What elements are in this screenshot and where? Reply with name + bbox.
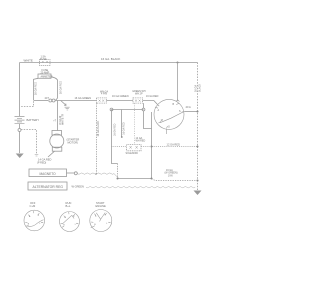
svg-text:S: S bbox=[38, 215, 40, 217]
connector 24T bbox=[49, 99, 52, 102]
wire alternator wavy ground bbox=[86, 187, 195, 188]
wire magneto lead bbox=[67, 172, 75, 174]
svg-text:WHITE: WHITE bbox=[24, 59, 33, 63]
svg-text:B+L: B+L bbox=[66, 204, 71, 208]
wire tee to connector bbox=[34, 100, 49, 102]
wire kill line to rail bbox=[118, 178, 152, 180]
wire key switch top feed bbox=[177, 63, 179, 102]
svg-text:S: S bbox=[105, 215, 107, 217]
ground arrow near starter bbox=[61, 101, 66, 106]
svg-text:(P RED): (P RED) bbox=[37, 162, 46, 165]
fuse F1 on top wire bbox=[40, 60, 51, 66]
wire lower interlock bbox=[112, 109, 144, 111]
alternator reg box bbox=[28, 182, 67, 190]
svg-text:B: B bbox=[28, 224, 30, 226]
svg-text:16 GA RED: 16 GA RED bbox=[146, 95, 159, 98]
svg-text:A: A bbox=[158, 109, 160, 112]
key switch U1 bbox=[154, 99, 184, 129]
svg-text:SOLENOID: SOLENOID bbox=[126, 152, 139, 155]
svg-text:S: S bbox=[73, 216, 75, 218]
svg-text:L: L bbox=[75, 224, 77, 226]
wire drop x121 bbox=[121, 110, 123, 138]
svg-text:B: B bbox=[63, 225, 65, 227]
key switch bottom stub bbox=[166, 130, 168, 135]
connector box B bbox=[133, 98, 143, 103]
wire link box B to circle bbox=[143, 103, 145, 108]
key switch wiper bbox=[160, 112, 184, 123]
ground right rail bbox=[194, 191, 202, 196]
switch position OFF circle bbox=[24, 210, 45, 231]
wire between connectors bbox=[106, 100, 133, 102]
svg-text:12 GA RED: 12 GA RED bbox=[167, 143, 181, 147]
wire solenoid line left bbox=[112, 146, 127, 148]
svg-text:40 A: 40 A bbox=[186, 105, 191, 109]
svg-text:FUSE: FUSE bbox=[40, 58, 47, 61]
battery B1 bbox=[15, 117, 25, 124]
svg-text:ENGINE: ENGINE bbox=[96, 204, 107, 208]
svg-text:BATTERY: BATTERY bbox=[27, 118, 40, 122]
wire to key switch bbox=[143, 101, 158, 105]
svg-text:16 GA: 16 GA bbox=[195, 85, 198, 92]
node junction top wire x178 bbox=[177, 62, 179, 64]
wire magneto wavy bbox=[78, 173, 119, 178]
svg-text:JXN: JXN bbox=[168, 174, 173, 177]
svg-text:L: L bbox=[40, 223, 42, 225]
svg-text:B: B bbox=[94, 224, 96, 226]
wire drop box B faint bbox=[134, 103, 136, 144]
svg-text:MOTOR): MOTOR) bbox=[68, 140, 79, 144]
solenoid connector box bbox=[127, 145, 142, 151]
wire key switch bottom path bbox=[144, 111, 152, 129]
svg-text:WH RED: WH RED bbox=[136, 140, 146, 143]
wire interlock drop x112 bbox=[112, 110, 118, 164]
svg-text:16 GA GREEN: 16 GA GREEN bbox=[112, 95, 129, 98]
switch position START circle bbox=[90, 210, 112, 232]
svg-text:16 GA RED: 16 GA RED bbox=[35, 82, 38, 95]
svg-text:C+M: C+M bbox=[30, 204, 37, 208]
svg-text:WHITE TR: WHITE TR bbox=[63, 114, 65, 125]
svg-text:20 AMP: 20 AMP bbox=[41, 72, 50, 75]
wire right rail bbox=[197, 63, 199, 191]
svg-text:16 GA RED: 16 GA RED bbox=[113, 123, 116, 136]
wire left drop from ammeter bbox=[34, 78, 39, 98]
ground battery bbox=[16, 154, 24, 159]
svg-text:ALTERNATOR REG: ALTERNATOR REG bbox=[33, 185, 64, 189]
svg-text:S: S bbox=[179, 110, 181, 113]
connector on battery lead bbox=[18, 129, 21, 132]
svg-text:A: A bbox=[65, 216, 67, 219]
svg-text:+T: +T bbox=[53, 120, 56, 123]
wire solenoid to rail bbox=[141, 146, 198, 148]
svg-text:16 GA. BLACK: 16 GA. BLACK bbox=[101, 57, 120, 61]
svg-text:G: G bbox=[168, 126, 170, 129]
svg-text:A: A bbox=[95, 215, 97, 218]
wire center horizontal bbox=[55, 100, 96, 102]
wire left rail down to battery bbox=[19, 63, 21, 117]
magneto box bbox=[29, 169, 67, 177]
svg-text:16 GA GREEN: 16 GA GREEN bbox=[75, 97, 92, 100]
switch position RUN circle bbox=[60, 212, 80, 232]
svg-text:M: M bbox=[161, 119, 163, 122]
svg-text:W GREEN: W GREEN bbox=[72, 184, 85, 188]
connector box A bbox=[97, 98, 107, 103]
svg-text:16 GA RED: 16 GA RED bbox=[60, 81, 63, 94]
wire starter motor feed bbox=[57, 101, 59, 131]
svg-text:WH 2P: WH 2P bbox=[135, 92, 143, 95]
starter motor M1 bbox=[52, 131, 62, 136]
svg-text:4 PIN: 4 PIN bbox=[101, 93, 107, 96]
svg-text:BLACK: BLACK bbox=[199, 83, 202, 92]
ammeter box bbox=[38, 74, 51, 78]
svg-text:24T: 24T bbox=[45, 97, 50, 100]
wire key switch right to rail bbox=[185, 111, 198, 113]
svg-text:A: A bbox=[29, 215, 31, 218]
svg-text:MAGNETO: MAGNETO bbox=[40, 172, 57, 176]
svg-text:B: B bbox=[173, 103, 175, 106]
wire top horizontal B+ bbox=[20, 62, 198, 64]
svg-text:16 GA RED: 16 GA RED bbox=[122, 122, 125, 135]
svg-text:16 GA BLACK: 16 GA BLACK bbox=[97, 120, 100, 136]
wire dashed alternator drop bbox=[96, 103, 98, 173]
key switch ticks bbox=[155, 100, 185, 129]
wire dashed battery to engine bbox=[21, 130, 37, 155]
svg-text:L: L bbox=[106, 223, 108, 225]
wire motor ground lead bbox=[48, 151, 55, 157]
svg-text:AMMETER: AMMETER bbox=[41, 75, 53, 78]
wire right drop from ammeter bbox=[51, 77, 58, 100]
